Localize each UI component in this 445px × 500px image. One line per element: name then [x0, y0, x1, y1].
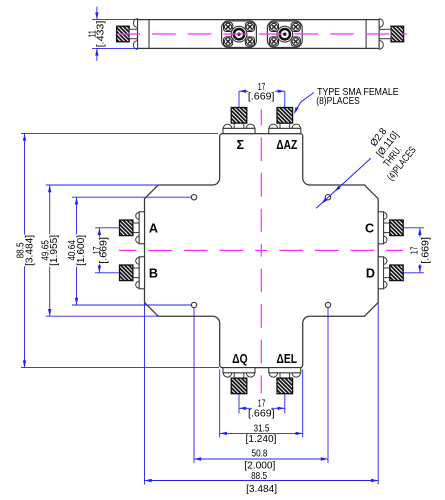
svg-text:C: C — [365, 222, 374, 236]
svg-text:B: B — [149, 267, 158, 281]
svg-text:88.5: 88.5 — [251, 471, 267, 482]
svg-text:[.669]: [.669] — [248, 92, 275, 103]
svg-text:[3.484]: [3.484] — [246, 484, 277, 495]
svg-text:[1.955]: [1.955] — [49, 235, 60, 266]
svg-text:17: 17 — [410, 246, 421, 254]
svg-text:ΔQ: ΔQ — [232, 352, 248, 366]
svg-text:31.5: 31.5 — [254, 424, 270, 435]
svg-text:A: A — [149, 222, 158, 236]
svg-text:[.669]: [.669] — [99, 237, 110, 264]
svg-text:[1.600]: [1.600] — [76, 235, 87, 266]
svg-text:50.8: 50.8 — [252, 449, 268, 460]
svg-text:ΔAZ: ΔAZ — [276, 138, 297, 152]
svg-text:[.669]: [.669] — [248, 409, 275, 420]
svg-text:ΔEL: ΔEL — [277, 352, 298, 366]
svg-text:[3.484]: [3.484] — [24, 235, 35, 266]
svg-text:[1.240]: [1.240] — [246, 434, 277, 445]
svg-text:Σ: Σ — [237, 138, 245, 152]
svg-text:[.669]: [.669] — [420, 237, 431, 264]
svg-text:(8)PLACES: (8)PLACES — [316, 96, 360, 107]
svg-text:[2.000]: [2.000] — [244, 461, 275, 472]
svg-text:[.433]: [.433] — [96, 21, 107, 48]
svg-text:D: D — [366, 267, 375, 281]
